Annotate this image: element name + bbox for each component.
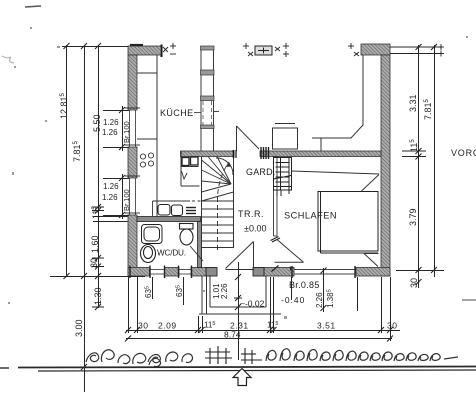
svg-text:30: 30 (138, 321, 148, 331)
dim vertical right 3.31 chain (418, 45, 420, 288)
ladder marks (205, 346, 262, 364)
marks left of top-right corner (348, 43, 359, 56)
marks gard wall left end (261, 147, 269, 159)
svg-text:-0.40: -0.40 (281, 295, 305, 305)
pillar wall strip (kitchen east) verticals (201, 46, 214, 151)
dim horizontal bottom wall extension left (50, 276, 145, 278)
wall stair top (181, 151, 235, 157)
bed corner mark bottom (364, 254, 379, 267)
svg-text:KÜCHE: KÜCHE (160, 108, 194, 118)
jamb slash bottom wall at hall door (272, 266, 291, 272)
wall thickness mark top-left (130, 44, 143, 46)
right top extensions (390, 46, 442, 48)
entrance arrow (233, 369, 251, 386)
svg-text:2.31: 2.31 (230, 321, 249, 331)
wc toilet (180, 224, 194, 246)
svg-text:5.50: 5.50 (92, 114, 102, 132)
wc window dim extensions (152, 277, 154, 299)
loggia skylight square (273, 124, 298, 150)
svg-text:1.26: 1.26 (102, 193, 118, 202)
scan dash top-left (25, 6, 41, 7)
stair wall end tick (233, 150, 235, 158)
svg-text:1.26: 1.26 (102, 128, 118, 137)
vegetation squiggle (86, 350, 160, 367)
window schlafen bottom Br.0.85 (294, 270, 356, 275)
dim vertical right 7.81 (434, 45, 436, 277)
stove burners (140, 153, 153, 167)
sink bowl 2 (172, 205, 183, 216)
dim horizontal top-left extension (62, 46, 128, 48)
stair winder treads (202, 157, 234, 202)
svg-text:30: 30 (409, 278, 419, 288)
bottom chain dim line (126, 330, 400, 332)
strip dark bands (201, 46, 215, 129)
wall trr/schlafen (thin double) (274, 157, 278, 237)
bottom extension verticals (128, 277, 130, 333)
svg-text:GARD.: GARD. (246, 167, 276, 177)
window in bottom wall WC 2 (179, 270, 191, 275)
interior wall ticks left (92, 206, 104, 208)
dim slashes left (64, 43, 126, 370)
bottom chain slashes (125, 327, 393, 342)
dim vertical left 12.81 line (66, 45, 68, 277)
svg-text:3.51: 3.51 (317, 321, 336, 331)
svg-text:2.26: 2.26 (315, 292, 324, 308)
svg-text:115: 115 (267, 321, 278, 330)
window1 dim extensions (103, 110, 129, 112)
tick right of strip (214, 111, 219, 113)
svg-text:115: 115 (204, 321, 215, 330)
svg-text:2.26: 2.26 (220, 283, 229, 299)
entrance door swing (226, 242, 255, 270)
stair walkline (218, 162, 232, 250)
wall top-left horizontal (128, 46, 161, 55)
sink bowl 1 (158, 205, 170, 216)
dim vertical left 5.50 chain line (98, 45, 100, 308)
terrace door leaf (237, 126, 260, 149)
wall left: lower segment (128, 215, 137, 276)
svg-text:Br.100: Br.100 (122, 121, 131, 143)
vegetation squiggle right (266, 349, 458, 361)
svg-text:1.26: 1.26 (103, 118, 119, 127)
loggia inner outline (312, 55, 363, 151)
bottom wall jamb piers (206, 268, 264, 277)
svg-text:±0.00: ±0.00 (244, 224, 266, 234)
svg-text:Br.100: Br.100 (122, 189, 131, 211)
svg-text:1.30: 1.30 (93, 287, 103, 305)
wc door swing (190, 246, 203, 261)
small mark right edge (462, 299, 476, 301)
kitchen sink counter outline (153, 201, 207, 217)
svg-text:115: 115 (91, 206, 101, 219)
wall gard/schlafen top (260, 151, 381, 157)
svg-text:TR.R.: TR.R. (238, 209, 264, 219)
svg-text:3.79: 3.79 (408, 208, 418, 226)
marks left of pillar (243, 43, 253, 56)
svg-text:635: 635 (144, 286, 153, 298)
scan specks (2, 27, 468, 319)
kitchen closet lines top (137, 72, 157, 74)
svg-text:VORG: VORG (451, 148, 476, 158)
svg-text:12.815: 12.815 (59, 92, 69, 119)
marks right of pillar (275, 43, 289, 57)
svg-text:WC/DU.: WC/DU. (157, 249, 186, 258)
svg-text:3.31: 3.31 (408, 94, 418, 112)
svg-text:1.60: 1.60 (90, 235, 100, 253)
right gard wall extensions (402, 150, 426, 152)
mark right of top-left wall (163, 43, 176, 54)
schlafen window dim extensions (291, 277, 293, 300)
pillar (loggia column) (255, 46, 272, 55)
dim vertical left 7.81/3.00 line (84, 45, 86, 392)
window W1 left wall (130, 110, 136, 147)
kitchen counter left wall side (137, 55, 157, 217)
stair straight treads (202, 201, 234, 248)
svg-text:1.385: 1.385 (326, 289, 335, 308)
tick 1.60 end (92, 257, 104, 259)
schlafen wall end slashes (271, 237, 281, 243)
svg-text:30: 30 (89, 258, 99, 268)
bottom total dim line (126, 338, 392, 340)
svg-text:3.00: 3.00 (74, 319, 84, 337)
svg-text:~-0.02: ~-0.02 (240, 299, 265, 309)
svg-text:8.74: 8.74 (224, 330, 241, 340)
svg-text:30: 30 (387, 321, 397, 331)
bed (318, 192, 378, 254)
vent arrow mark (182, 171, 188, 179)
left wall window tick pairs (125, 108, 140, 213)
svg-text:7.815: 7.815 (72, 140, 82, 162)
marks right-top extensions end (438, 44, 444, 57)
bathtub (142, 225, 163, 244)
bottom wall opening jamb ticks (130, 266, 355, 279)
svg-text:SCHLAFEN: SCHLAFEN (284, 211, 337, 221)
strip dashed lines (203, 101, 212, 125)
window W2 left wall (130, 178, 136, 215)
right bottom extension (396, 270, 444, 272)
porch walls (199, 276, 281, 314)
porch dim line vertical (238, 262, 240, 360)
window2 dim extensions (103, 178, 129, 180)
street double line (0, 367, 9, 369)
wall wc east (198, 222, 202, 268)
svg-text:115: 115 (409, 139, 419, 152)
jamb tick at top wall end (161, 45, 163, 58)
duct boxes near stairs (182, 157, 198, 166)
wall right (381, 55, 390, 276)
wall top-right horizontal (361, 44, 390, 55)
window in bottom wall WC 1 (150, 270, 165, 275)
bed corner mark top (362, 175, 380, 192)
svg-text:Br.0.85: Br.0.85 (289, 280, 320, 290)
right slashes (416, 44, 438, 285)
wall left: segment between windows (128, 147, 137, 178)
schlafen door swing (275, 240, 304, 263)
washbasin (141, 245, 156, 263)
svg-text:7.815: 7.815 (423, 98, 433, 120)
tick porch edge left (92, 306, 104, 308)
svg-text:635: 635 (175, 285, 184, 297)
wall bottom segments (128, 268, 390, 277)
clothes rail line (292, 171, 380, 174)
wardrobe GARD (274, 158, 292, 197)
wall left: segment above window 1 (128, 55, 137, 110)
duct enclosure (181, 151, 200, 186)
svg-text:1.26: 1.26 (103, 182, 119, 191)
stove bars (186, 208, 196, 214)
stair shaft (202, 157, 234, 268)
wall kitchen/wc interior (137, 217, 201, 222)
svg-text:2.09: 2.09 (158, 321, 177, 331)
